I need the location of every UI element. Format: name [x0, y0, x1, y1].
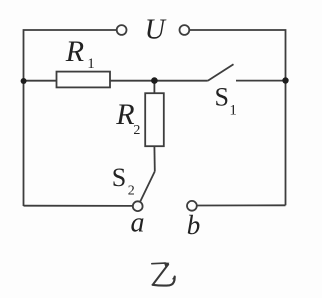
svg-text:R: R — [115, 98, 134, 131]
wire left junction to R1 — [24, 80, 57, 82]
wire top-left horizontal — [24, 30, 117, 206]
resistor R2 — [145, 93, 164, 146]
svg-text:U: U — [145, 15, 167, 46]
wire top-right horizontal — [190, 30, 286, 81]
wire R2 bottom — [153, 146, 155, 171]
switch S2 blade — [140, 171, 155, 201]
svg-text:S: S — [112, 163, 126, 192]
terminal right (U-) — [180, 25, 190, 35]
node junction right — [282, 77, 288, 83]
wire junction to R2 top — [153, 81, 155, 94]
svg-text:R: R — [65, 35, 84, 68]
character yi (乙) caption — [152, 262, 175, 285]
svg-text:a: a — [131, 207, 145, 238]
svg-text:2: 2 — [128, 183, 135, 198]
svg-text:1: 1 — [87, 56, 95, 72]
svg-text:S: S — [215, 83, 229, 112]
wire right vertical lower — [285, 81, 287, 206]
node junction middle — [151, 77, 158, 84]
node junction left — [21, 78, 27, 84]
wire bottom-left — [24, 205, 133, 207]
svg-text:b: b — [187, 210, 201, 240]
wire S1 to right junction — [236, 80, 286, 82]
terminal a — [133, 201, 143, 211]
switch S1 blade — [208, 64, 234, 81]
svg-text:1: 1 — [229, 103, 237, 119]
terminal left (U+) — [117, 25, 127, 35]
svg-text:2: 2 — [133, 123, 140, 138]
resistor R1 — [57, 72, 111, 88]
wire R1 to middle junction — [110, 80, 154, 82]
terminal b — [187, 201, 197, 211]
wire middle junction to S1 hinge — [154, 80, 207, 82]
wire bottom-right — [197, 204, 285, 206]
